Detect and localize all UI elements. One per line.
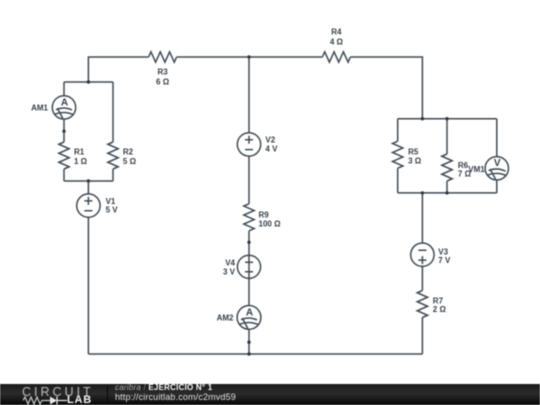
svg-text:AM2: AM2 — [217, 314, 234, 323]
svg-text:6 Ω: 6 Ω — [156, 77, 170, 86]
resistor R3 — [149, 52, 177, 62]
wire R5 top feed — [397, 119, 399, 142]
label meter letter V of VM1 — [494, 158, 501, 169]
node bottom rail junction — [247, 352, 250, 355]
svg-text:R5: R5 — [408, 148, 419, 157]
resistor R7 — [417, 291, 427, 318]
footer title line — [115, 384, 212, 392]
svg-text:5 Ω: 5 Ω — [123, 157, 137, 166]
node block2 bottom mid — [445, 191, 448, 194]
op-amp AM1 ammeter — [52, 96, 75, 119]
wire AM2 to bottom rail — [248, 329, 250, 354]
footer bar — [0, 384, 540, 405]
wire block1 top rail — [64, 81, 113, 83]
svg-text:V2: V2 — [265, 135, 275, 144]
logo circuit squiggle and diode icon — [23, 396, 67, 405]
svg-text:V: V — [494, 158, 501, 169]
svg-text:R1: R1 — [74, 148, 85, 157]
label V1 value — [106, 197, 119, 215]
voltage source V2 — [237, 133, 260, 156]
svg-text:1 Ω: 1 Ω — [74, 157, 88, 166]
wire middle branch top — [248, 57, 250, 133]
footer url line — [115, 393, 236, 402]
svg-text:A: A — [61, 97, 68, 108]
svg-text:R2: R2 — [123, 148, 134, 157]
resistor R4 — [322, 52, 350, 62]
label V4 value — [223, 259, 236, 277]
svg-text:V4: V4 — [225, 259, 235, 268]
resistor R9 — [244, 204, 254, 231]
wire block2 top rail — [398, 118, 497, 120]
voltage source V1 — [77, 194, 100, 217]
resistor R1 — [59, 142, 69, 169]
label R3 value — [156, 67, 170, 86]
svg-text:R7: R7 — [433, 296, 444, 305]
node block1 bottom junction — [87, 179, 90, 182]
svg-text:3 Ω: 3 Ω — [408, 157, 422, 166]
wire block1 bottom rail — [64, 180, 113, 182]
node block2 top mid — [445, 117, 448, 120]
label meter letter A of AM2 — [246, 307, 253, 318]
label R5 value — [408, 148, 422, 166]
label R2 value — [123, 148, 137, 166]
label R4 value — [330, 27, 344, 46]
wire to V1 — [87, 181, 89, 194]
svg-text:100 Ω: 100 Ω — [259, 220, 282, 229]
svg-text:V3: V3 — [438, 247, 448, 256]
wire AM1 top feed — [63, 82, 65, 96]
svg-text:7 V: 7 V — [438, 256, 451, 265]
node below AM1 — [62, 130, 65, 133]
svg-text:VM1: VM1 — [468, 165, 485, 174]
svg-text:R4: R4 — [331, 27, 342, 36]
wire R2 to bottom rail — [112, 169, 114, 181]
resistor R6 — [442, 154, 452, 181]
label R6 value — [458, 161, 472, 179]
wire V3 to R7 — [421, 266, 423, 290]
svg-text:4 V: 4 V — [265, 145, 278, 154]
label AM1 — [31, 104, 48, 113]
node below R9 — [247, 241, 250, 244]
svg-text:AM1: AM1 — [31, 104, 48, 113]
voltage source V4 — [237, 255, 260, 278]
node block2 top feed — [421, 117, 424, 120]
label R1 value — [74, 148, 88, 166]
wire R5 to bottom rail — [397, 168, 399, 193]
wire R7 to bottom rail — [421, 318, 423, 355]
op-amp AM2 ammeter — [237, 306, 261, 330]
voltage source V3 — [411, 243, 434, 266]
svg-text:5 V: 5 V — [106, 205, 119, 214]
wire VM1 to bottom rail — [496, 180, 498, 193]
node top rail junction — [247, 55, 250, 58]
wire R1 to bottom rail — [63, 169, 65, 181]
wire R6 to bottom rail — [446, 181, 448, 193]
wire block2 to V3 — [421, 193, 423, 243]
label VM1 — [468, 165, 485, 174]
wire R6 top feed — [446, 119, 448, 154]
wire V2 to R9 — [248, 156, 250, 204]
label V2 value — [265, 135, 278, 153]
resistor R5 — [393, 141, 403, 168]
svg-text:2 Ω: 2 Ω — [433, 305, 447, 314]
logo CIRCUIT wordmark — [22, 386, 94, 399]
wire block2 bottom rail — [398, 192, 497, 194]
svg-text:R9: R9 — [259, 211, 270, 220]
node block2 bottom feed — [421, 191, 424, 194]
footer divider — [107, 386, 108, 403]
wire AM1 to R1 — [63, 119, 65, 142]
wire bottom rail — [88, 353, 422, 355]
wire VM1 top feed — [496, 119, 498, 157]
wire top rail right and right vertical drop — [350, 57, 422, 119]
wire top rail between R3 and R4 — [177, 56, 323, 58]
svg-text:4 Ω: 4 Ω — [330, 37, 344, 46]
voltmeter VM1 — [485, 157, 508, 180]
wire V1 to ground rail — [87, 217, 89, 354]
svg-text:A: A — [246, 307, 253, 318]
logo LAB wordmark — [67, 395, 92, 405]
wire R9 through V4 to AM2 — [248, 231, 250, 306]
resistor R2 — [108, 142, 118, 169]
svg-text:R3: R3 — [157, 67, 168, 76]
wire R2 top feed — [112, 82, 114, 142]
label AM2 — [217, 314, 234, 323]
label meter letter A of AM1 — [61, 97, 68, 108]
svg-text:3 V: 3 V — [223, 268, 236, 277]
label V3 value — [438, 247, 451, 265]
wire top-left vertical and top rail to R3 — [88, 57, 148, 82]
node below AM2 — [247, 341, 250, 344]
node block1 top junction — [87, 80, 90, 83]
label R9 value — [259, 211, 282, 229]
label R7 value — [433, 296, 447, 314]
